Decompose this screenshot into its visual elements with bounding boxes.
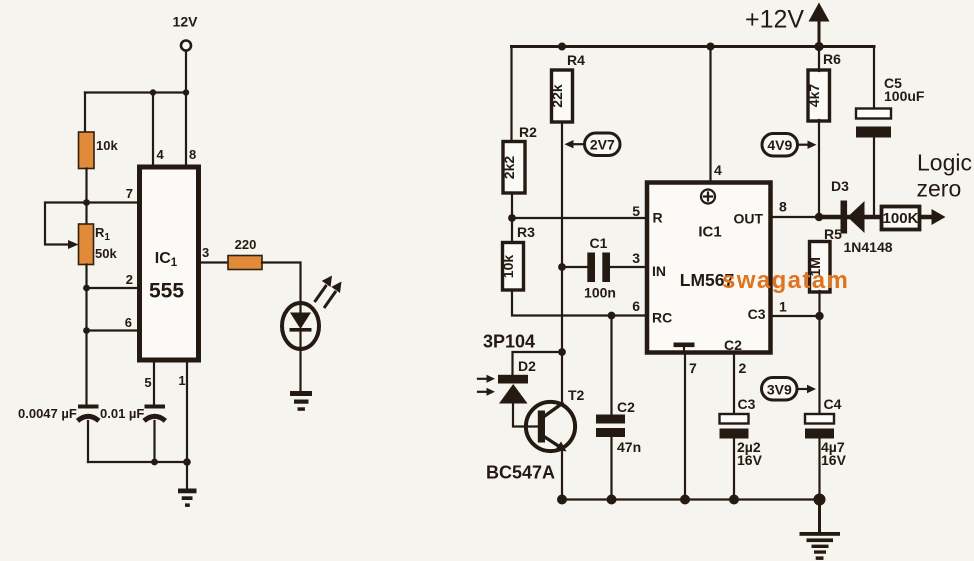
resistor 220	[228, 237, 262, 270]
wire bottom rail	[88, 461, 187, 463]
svg-text:IC1: IC1	[698, 224, 721, 241]
test point 3V9	[762, 378, 817, 401]
node pin6 junction	[83, 327, 90, 334]
svg-text:R2: R2	[519, 124, 537, 140]
svg-text:T2: T2	[568, 387, 585, 403]
svg-text:22k: 22k	[549, 84, 565, 108]
wire C1 to pin 3	[610, 266, 645, 268]
svg-text:10k: 10k	[500, 255, 516, 279]
LED D1	[282, 276, 342, 350]
svg-text:3P104: 3P104	[483, 332, 535, 352]
test point 2V7	[565, 133, 621, 156]
resistor R6 4k7	[806, 51, 841, 121]
node pin8 rail junction	[183, 89, 189, 95]
wire to main ground	[818, 500, 821, 533]
node cap2 bottom junction	[151, 459, 158, 466]
svg-text:100K: 100K	[883, 210, 919, 227]
wire R6 bottom to junction	[818, 120, 820, 217]
svg-text:100n: 100n	[584, 285, 616, 301]
svg-text:6: 6	[125, 315, 132, 330]
svg-text:0.0047 µF: 0.0047 µF	[18, 406, 77, 421]
node rail/pin4 junction	[707, 43, 715, 51]
svg-text:2: 2	[739, 360, 747, 376]
svg-text:C2: C2	[617, 399, 635, 415]
node pin2 junction	[83, 285, 90, 292]
ground (main right)	[800, 532, 841, 560]
node C2/rail junction	[607, 495, 617, 505]
IC IC1 555	[140, 167, 199, 360]
IC IC1 LM567	[647, 183, 771, 354]
svg-text:C1: C1	[590, 235, 608, 251]
svg-text:16V: 16V	[737, 452, 763, 468]
svg-text:3V9: 3V9	[767, 382, 792, 398]
node 12V supply terminal	[173, 14, 199, 51]
wire pin1 junction down to C4	[818, 316, 820, 414]
pin 8 wire	[773, 216, 820, 218]
wire 12V terminal to top rail	[185, 51, 187, 93]
node pin7/rail junction	[680, 495, 690, 505]
output arrow logic zero	[921, 209, 946, 225]
wire pin 6	[87, 329, 140, 331]
wire C1 left	[562, 266, 587, 268]
wire top supply rail	[85, 91, 186, 93]
wire to ground	[186, 462, 188, 489]
photodiode D2	[478, 358, 536, 404]
node pin5 junction	[508, 214, 516, 222]
wire 10k to node A	[85, 169, 87, 225]
node A junction (pin7 / wiper)	[83, 199, 90, 206]
wire LED to ground	[299, 349, 301, 391]
resistor R5 1M	[807, 226, 842, 292]
resistor R2 2k2	[501, 124, 537, 193]
svg-text:zero: zero	[917, 176, 962, 202]
wire T2 emitter down	[561, 450, 563, 500]
svg-text:Logic: Logic	[917, 150, 972, 176]
svg-text:2k2: 2k2	[501, 156, 517, 180]
wire rail corner down to resistor 10k	[84, 93, 86, 133]
svg-text:C3: C3	[748, 306, 766, 322]
svg-text:555: 555	[149, 280, 184, 303]
node +12V supply	[745, 3, 830, 47]
test point 4V9	[762, 134, 817, 157]
svg-text:OUT: OUT	[733, 211, 763, 227]
wire R4 bottom long vertical	[561, 122, 563, 352]
svg-text:8: 8	[189, 147, 196, 162]
pin 4 wire	[152, 93, 154, 165]
potentiometer R1 wiper arrowhead	[68, 240, 79, 249]
svg-text:IN: IN	[652, 263, 666, 279]
svg-text:5: 5	[144, 375, 151, 390]
svg-text:3: 3	[202, 245, 209, 260]
svg-text:C3: C3	[738, 396, 756, 412]
pin 1 wire	[773, 315, 820, 317]
wire D2 anode to T2 base	[513, 404, 538, 427]
pin 1 wire	[186, 363, 188, 463]
svg-text:C2: C2	[724, 337, 742, 353]
wire R1 wiper feedback	[45, 203, 87, 245]
resistor box 100K	[882, 207, 920, 230]
wire pin 7	[87, 201, 140, 203]
resistor R3 10k	[500, 224, 535, 290]
svg-text:R4: R4	[567, 52, 585, 68]
wire R5 bottom to pin1 junction	[818, 291, 820, 316]
svg-text:0.01 µF: 0.01 µF	[100, 406, 144, 421]
svg-text:R: R	[653, 210, 663, 226]
svg-text:2V7: 2V7	[590, 137, 615, 153]
svg-text:R5: R5	[824, 226, 842, 242]
wire pin 2	[87, 287, 140, 289]
svg-text:1N4148: 1N4148	[844, 239, 893, 255]
capacitor C2 47n	[596, 316, 641, 500]
node ground junction	[814, 494, 826, 506]
wire thick output through D3	[819, 215, 881, 220]
wire T2 collector up	[561, 352, 563, 404]
svg-text:4: 4	[157, 147, 165, 162]
potentiometer R1 50k	[79, 224, 118, 265]
svg-text:4k7: 4k7	[806, 84, 822, 108]
svg-text:R3: R3	[517, 224, 535, 240]
wire R6 top	[818, 47, 820, 72]
resistor R4 22k	[549, 52, 585, 122]
capacitor C1 100n	[584, 235, 616, 301]
svg-text:swagatam: swagatam	[722, 267, 849, 294]
svg-text:D2: D2	[518, 358, 536, 374]
pin 3 wire	[201, 261, 228, 263]
svg-text:7: 7	[689, 360, 697, 376]
svg-text:5: 5	[632, 203, 640, 219]
node C3/rail junction	[729, 495, 739, 505]
svg-text:6: 6	[632, 298, 640, 314]
diode D3 1N4148	[831, 178, 893, 255]
node C1 junction	[558, 263, 566, 271]
svg-text:4V9: 4V9	[767, 137, 792, 153]
svg-text:220: 220	[235, 237, 257, 252]
svg-text:8: 8	[779, 199, 787, 215]
resistor 10k	[79, 132, 119, 169]
pin 2 wire	[733, 355, 735, 414]
capacitor C3 2u2	[720, 396, 763, 500]
pin 7 wire	[684, 355, 686, 500]
pin 4 wire	[709, 47, 711, 181]
label Logic zero	[917, 150, 972, 202]
svg-text:4: 4	[714, 162, 722, 178]
node pin8/R5/D3 junction	[815, 213, 823, 221]
wire bottom rail	[562, 498, 820, 500]
wire 220 to LED	[262, 263, 301, 302]
wire R1 bottom down left column	[85, 265, 87, 406]
svg-text:16V: 16V	[821, 452, 847, 468]
svg-text:R6: R6	[823, 51, 841, 67]
wire R2 to R3	[511, 193, 513, 242]
svg-text:C4: C4	[824, 396, 842, 412]
node D2 branch junction	[558, 348, 566, 356]
svg-text:+12V: +12V	[745, 6, 804, 34]
svg-text:D3: D3	[831, 178, 849, 194]
node pin1 bottom junction	[183, 458, 191, 466]
svg-text:12V: 12V	[173, 14, 199, 30]
svg-text:RC: RC	[652, 310, 672, 326]
svg-text:1: 1	[178, 373, 185, 388]
svg-text:7: 7	[126, 186, 133, 201]
node emitter/rail junction	[557, 495, 567, 505]
pin 5 wire	[153, 363, 155, 406]
svg-text:1: 1	[779, 299, 787, 315]
capacitor 0.01uF	[100, 405, 165, 463]
svg-text:3: 3	[632, 250, 640, 266]
node C2 branch junction	[608, 312, 616, 320]
svg-text:47n: 47n	[617, 439, 641, 455]
capacitor C5 100uF	[856, 48, 925, 216]
node pin1/R5 junction	[815, 312, 823, 320]
svg-text:BC547A: BC547A	[486, 463, 555, 483]
wire rail left corner down to R2	[510, 47, 512, 142]
capacitor 0.0047uF	[18, 405, 99, 463]
svg-text:2: 2	[126, 272, 133, 287]
ground (LED)	[290, 391, 312, 411]
svg-text:10k: 10k	[96, 138, 118, 153]
svg-text:100uF: 100uF	[884, 88, 925, 104]
transistor T2 BC547A	[486, 387, 585, 483]
capacitor C4 4u7	[805, 396, 847, 500]
svg-text:50k: 50k	[95, 246, 117, 261]
wire R3 bottom to pin 6 row	[512, 290, 645, 316]
wire top supply rail	[512, 45, 875, 48]
node rail/R4 junction	[558, 43, 566, 51]
wire to photodiode D2	[513, 352, 563, 375]
ground (left circuit)	[178, 489, 197, 507]
node rail/+12V junction	[814, 42, 823, 51]
wire pin 5	[512, 217, 645, 219]
pin 8 wire	[185, 93, 187, 165]
node pin4 rail junction	[150, 89, 156, 95]
